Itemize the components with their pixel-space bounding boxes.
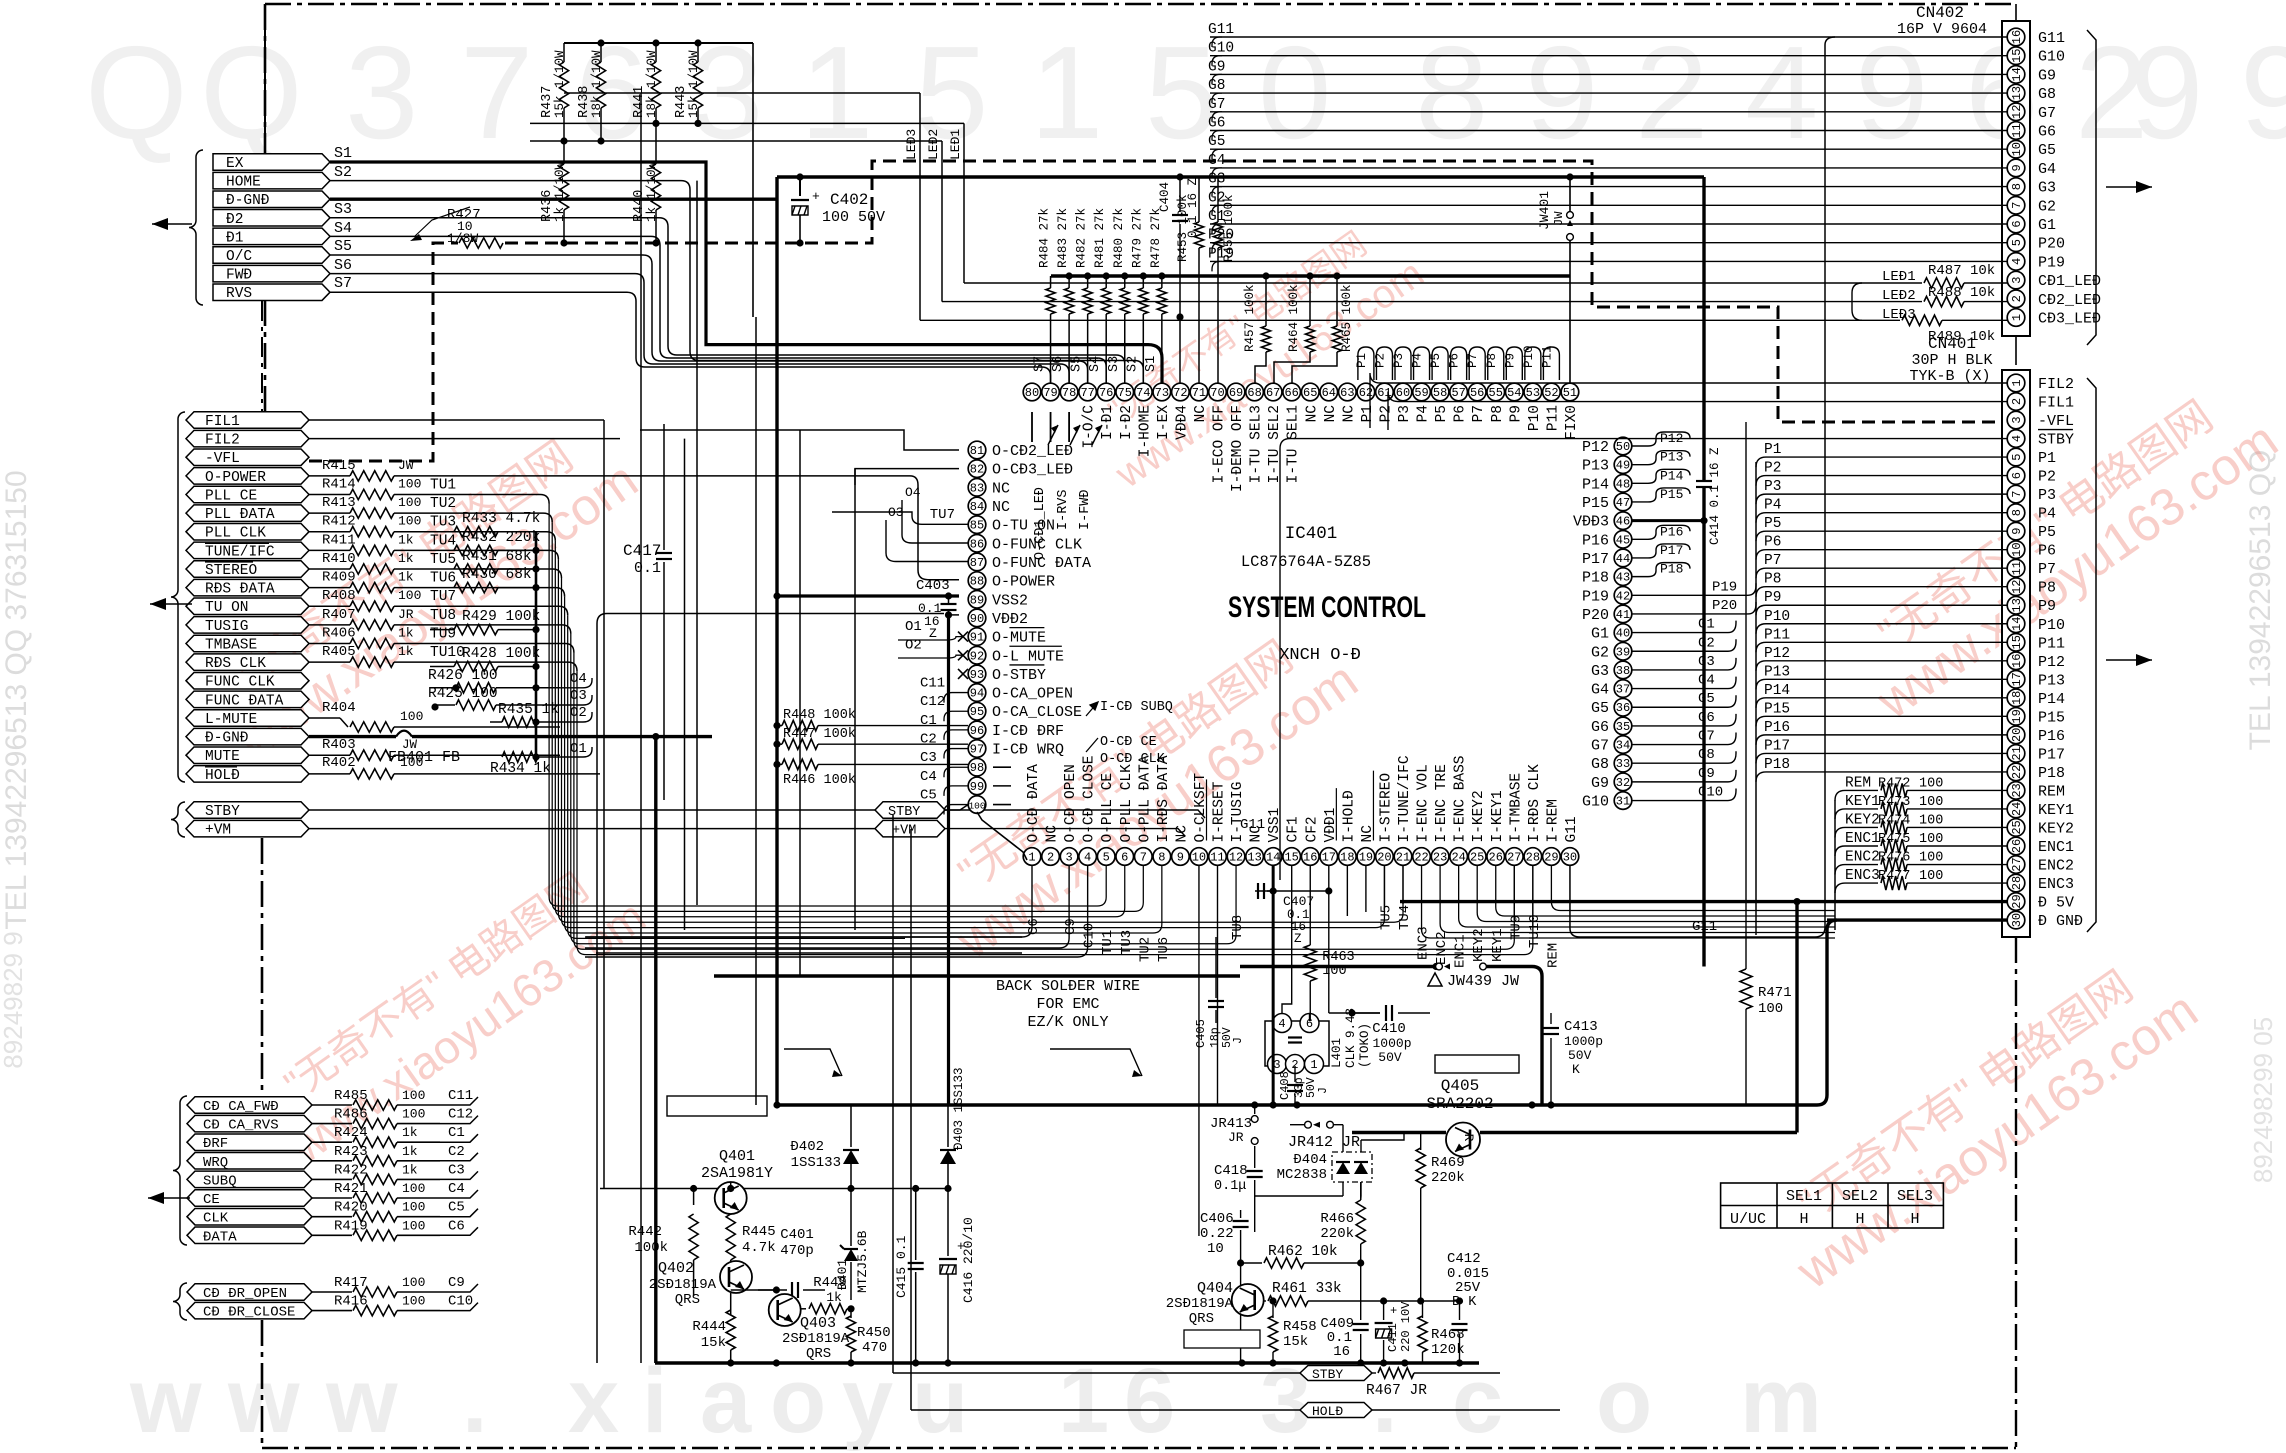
- svg-text:R424: R424: [334, 1125, 368, 1141]
- svg-text:R467 JR: R467 JR: [1366, 1383, 1427, 1399]
- brace CD stack: [173, 1096, 187, 1245]
- pin 74: [1135, 383, 1153, 401]
- svg-text:O2: O2: [570, 705, 587, 721]
- resistor R443 15k 1/10W: [697, 43, 699, 62]
- svg-text:1000p: 1000p: [1372, 1036, 1411, 1051]
- flag FIL1: [186, 412, 309, 429]
- svg-text:18k 1/10W: 18k 1/10W: [590, 50, 604, 118]
- svg-text:TU7: TU7: [930, 507, 955, 523]
- svg-text:VĐĐ3: VĐĐ3: [1573, 514, 1609, 531]
- wire REM label: [1835, 790, 1845, 800]
- svg-text:C416 220/10: C416 220/10: [961, 1217, 976, 1303]
- svg-text:P2: P2: [2038, 469, 2056, 486]
- svg-text:R450: R450: [857, 1325, 891, 1341]
- svg-text:29: 29: [1544, 851, 1558, 865]
- wire IC bottom pins 10,11 verticals: [1198, 866, 1200, 1237]
- svg-text:P2: P2: [1373, 353, 1387, 368]
- svg-text:a: a: [700, 1350, 752, 1452]
- svg-text:24: 24: [1451, 851, 1465, 865]
- svg-text:Z: Z: [929, 626, 937, 641]
- svg-text:+VM: +VM: [205, 823, 231, 839]
- svg-text:R406: R406: [322, 626, 356, 642]
- flag FWĐ: [213, 265, 330, 282]
- svg-text:P10: P10: [1522, 345, 1536, 368]
- svg-text:PLL ĐATA: PLL ĐATA: [205, 507, 275, 523]
- pin 36: [1614, 698, 1632, 716]
- wire CN401 box bottom stub: [2015, 936, 2017, 938]
- svg-text:TU6: TU6: [430, 571, 456, 587]
- svg-text:12: 12: [2010, 105, 2024, 119]
- svg-text:CĐ1_LEĐ: CĐ1_LEĐ: [2038, 273, 2101, 290]
- svg-text:73: 73: [1155, 386, 1169, 400]
- blank rect q404: [1184, 1330, 1260, 1348]
- resistor R483 27k: [1066, 272, 1073, 279]
- resistor R410 1k: [309, 568, 350, 570]
- svg-text:Q401: Q401: [719, 1148, 755, 1165]
- svg-text:P17: P17: [2038, 746, 2065, 763]
- pin 4: [1079, 848, 1097, 866]
- svg-text:16: 16: [1303, 851, 1317, 865]
- resistor R423 1k: [312, 1160, 352, 1162]
- svg-text:G10: G10: [1698, 785, 1723, 801]
- svg-text:30: 30: [2010, 913, 2024, 927]
- svg-text:C411: C411: [1386, 1323, 1400, 1352]
- pin 68: [1246, 383, 1264, 401]
- svg-text:51: 51: [1563, 386, 1577, 400]
- thick rail y=1105: [777, 1103, 1817, 1106]
- svg-text:100: 100: [1919, 813, 1943, 828]
- pin 15 (CN402): [2007, 47, 2025, 65]
- flag FUNC CLK: [186, 672, 309, 689]
- svg-text:C12: C12: [448, 1107, 473, 1123]
- svg-text:P16: P16: [1764, 720, 1790, 736]
- svg-text:HOME: HOME: [226, 175, 261, 191]
- svg-text:G7: G7: [1208, 97, 1225, 113]
- svg-text:O1: O1: [570, 741, 587, 757]
- resistor R445 4.7k: [730, 1214, 732, 1215]
- pin 13 (CN402): [2007, 84, 2025, 102]
- svg-text:CF1: CF1: [1286, 816, 1302, 842]
- svg-text:3: 3: [1260, 1350, 1311, 1452]
- svg-text:220 10V: 220 10V: [1399, 1301, 1413, 1352]
- svg-text:TU8: TU8: [430, 608, 456, 624]
- pin 7 (CN402): [2007, 197, 2025, 215]
- pin 28 (CN401): [2007, 874, 2025, 892]
- pin 88: [968, 572, 986, 590]
- svg-text:FIX0: FIX0: [1564, 405, 1580, 440]
- arrow right: [2106, 186, 2152, 188]
- svg-text:R474: R474: [1878, 813, 1910, 828]
- svg-text:S3: S3: [334, 201, 352, 218]
- svg-text:R412: R412: [322, 514, 356, 530]
- wire FIL1: [1398, 401, 2007, 403]
- svg-text:O-CĐ3_LEĐ: O-CĐ3_LEĐ: [992, 462, 1073, 479]
- wire G3 to CN402: [1210, 186, 2007, 188]
- svg-text:G10: G10: [2038, 49, 2065, 66]
- svg-text:12: 12: [1229, 851, 1243, 865]
- svg-text:I-ĐEMO OFF: I-ĐEMO OFF: [1230, 405, 1246, 492]
- svg-text:I-HOLĐ: I-HOLĐ: [1341, 790, 1357, 842]
- svg-text:59: 59: [1414, 386, 1428, 400]
- svg-text:R433 4.7k: R433 4.7k: [462, 511, 540, 527]
- flag TUNE/IFC: [186, 542, 309, 559]
- pin 63: [1339, 383, 1357, 401]
- svg-text:P5: P5: [1429, 353, 1443, 368]
- svg-text:CĐ CA_FWĐ: CĐ CA_FWĐ: [203, 1099, 279, 1115]
- svg-text:14: 14: [2010, 67, 2024, 81]
- wire P17 to CN401: [1766, 752, 2007, 754]
- svg-text:28: 28: [2010, 876, 2024, 890]
- svg-text:C5: C5: [448, 1200, 465, 1216]
- svg-text:37: 37: [1616, 683, 1630, 697]
- wire ENC3 label: [1835, 883, 1845, 893]
- svg-text:30P H BLK: 30P H BLK: [1911, 352, 1992, 369]
- wire: [440, 1284, 478, 1292]
- svg-text:C408: C408: [1278, 1071, 1292, 1100]
- pin 35: [1614, 717, 1632, 735]
- svg-text:16: 16: [2010, 654, 2024, 668]
- svg-text:SEL3: SEL3: [1897, 1188, 1933, 1205]
- pin 2 (CN402): [2007, 290, 2025, 308]
- svg-text:R405: R405: [322, 644, 356, 660]
- pin 58: [1431, 383, 1449, 401]
- flag RĐS CLK: [186, 654, 309, 671]
- capacitor C415 0.1: [915, 1189, 917, 1261]
- capacitor C404 0.1 16 Z: [1179, 177, 1181, 212]
- svg-text:Q403: Q403: [800, 1315, 836, 1332]
- pin 9 (CN401): [2007, 522, 2025, 540]
- svg-text:R403: R403: [322, 737, 356, 753]
- resistor R403 JW: [309, 754, 350, 756]
- svg-text:TEL 13942296513 QQ 376315150: TEL 13942296513 QQ 376315150: [0, 470, 33, 929]
- svg-text:REM: REM: [2038, 783, 2065, 800]
- svg-text:O4: O4: [905, 485, 921, 500]
- svg-text:87: 87: [970, 556, 984, 570]
- svg-text:+VM: +VM: [892, 824, 916, 839]
- svg-text:15k: 15k: [701, 1335, 726, 1351]
- wire: [440, 1227, 478, 1235]
- ferrite bead FB401 / D-GND thick trace: [309, 735, 396, 738]
- resistor R458 15k: [1272, 1301, 1274, 1318]
- svg-text:18k 1/10W: 18k 1/10W: [645, 50, 659, 118]
- svg-text:81: 81: [970, 444, 984, 458]
- resistor R467 JR: [1372, 1372, 1376, 1374]
- wire: [430, 662, 577, 671]
- svg-text:P13: P13: [1660, 450, 1683, 465]
- svg-text:50: 50: [1616, 440, 1630, 454]
- capacitor C414 0.1 16 Z: [1696, 480, 1712, 482]
- svg-text:100: 100: [402, 1181, 425, 1196]
- resistor R446 100k: [773, 761, 780, 768]
- svg-text:P10: P10: [2038, 617, 2065, 634]
- svg-text:G1: G1: [1208, 209, 1225, 225]
- svg-text:C6: C6: [448, 1218, 465, 1234]
- svg-text:17: 17: [1322, 851, 1336, 865]
- svg-text:44: 44: [1616, 552, 1630, 566]
- svg-text:JW: JW: [402, 738, 418, 752]
- resistor R463 100: [1309, 866, 1311, 946]
- pin 62: [1357, 383, 1375, 401]
- svg-text:R408: R408: [322, 588, 356, 604]
- svg-text:G4: G4: [2038, 161, 2056, 178]
- svg-text:STBY: STBY: [1312, 1367, 1343, 1382]
- svg-text:1: 1: [2010, 314, 2024, 321]
- svg-text:O-CĐ2_LEĐ: O-CĐ2_LEĐ: [992, 443, 1073, 460]
- svg-text:11: 11: [2010, 561, 2024, 575]
- svg-text:PLL CE: PLL CE: [205, 489, 257, 505]
- wire P6 to CN401: [1766, 549, 2007, 551]
- inductor L401 CLK 9.43 (TOKO): [1265, 1021, 1329, 1066]
- thick corner x=777 to 1105: [773, 1101, 780, 1108]
- resistor R442 100k: [693, 1189, 695, 1206]
- svg-text:P12: P12: [1582, 439, 1609, 456]
- resistor R450 470: [847, 1305, 854, 1312]
- pin 99: [968, 777, 986, 795]
- pin 5 (CN402): [2007, 234, 2025, 252]
- pin 34: [1614, 736, 1632, 754]
- svg-text:m: m: [1740, 1350, 1822, 1452]
- wire G10: [1632, 789, 1736, 801]
- pin 3 (CN401): [2007, 411, 2025, 429]
- pin 16: [1301, 848, 1319, 866]
- pin 45: [1614, 531, 1632, 549]
- svg-text:O1: O1: [905, 619, 922, 635]
- svg-text:ĐATA: ĐATA: [203, 1229, 237, 1245]
- wire VDD2 thin from left: [597, 614, 944, 1364]
- svg-text:17: 17: [2010, 672, 2024, 686]
- svg-text:P5: P5: [2038, 524, 2056, 541]
- resistor R486 100: [312, 1123, 352, 1125]
- svg-text:C1: C1: [920, 713, 937, 729]
- svg-text:R476: R476: [1878, 851, 1910, 866]
- svg-text:HOLĐ: HOLĐ: [205, 768, 240, 784]
- svg-text:P18: P18: [2038, 765, 2065, 782]
- svg-text:KEY1: KEY1: [1845, 794, 1880, 810]
- svg-text:G11: G11: [2038, 30, 2065, 47]
- svg-text:CĐ ĐR_CLOSE: CĐ ĐR_CLOSE: [203, 1305, 295, 1321]
- capacitor C407 0.1 16 Z: [1255, 890, 1273, 892]
- wire: [430, 569, 562, 578]
- svg-text:12: 12: [2010, 580, 2024, 594]
- wire: [752, 43, 754, 317]
- svg-text:P3: P3: [2038, 487, 2056, 504]
- svg-text:28: 28: [1526, 851, 1540, 865]
- pin 42: [1614, 586, 1632, 604]
- svg-text:H: H: [1855, 1211, 1864, 1228]
- svg-text:Q402: Q402: [658, 1260, 694, 1277]
- flag FIL2: [186, 430, 309, 447]
- svg-text:w: w: [227, 1350, 300, 1452]
- arrow left (CD stack): [148, 1197, 190, 1199]
- svg-text:23: 23: [2010, 783, 2024, 797]
- svg-text:0.1: 0.1: [634, 560, 661, 577]
- svg-text:R478 27k: R478 27k: [1149, 208, 1163, 268]
- wire FIL1 horizontal: [309, 419, 604, 421]
- svg-text:NC: NC: [992, 499, 1010, 516]
- wire P20 to CN402: [1210, 242, 2007, 244]
- svg-text:FOR EMC: FOR EMC: [1036, 996, 1099, 1013]
- pin 47: [1614, 493, 1632, 511]
- flag CĐ CA_FWĐ: [187, 1097, 312, 1114]
- svg-text:R422: R422: [334, 1162, 368, 1178]
- svg-text:TU4: TU4: [1397, 905, 1413, 930]
- svg-text:43: 43: [1616, 571, 1630, 585]
- pin 27: [1506, 848, 1524, 866]
- svg-text:C9: C9: [448, 1275, 465, 1291]
- pin 1: [1023, 848, 1041, 866]
- svg-text:25: 25: [1470, 851, 1484, 865]
- pin 11 (CN402): [2007, 122, 2025, 140]
- svg-text:63: 63: [1340, 386, 1354, 400]
- pin 17: [1320, 848, 1338, 866]
- svg-text:1: 1: [1310, 1058, 1317, 1072]
- wire pins 27,28 (TU9,TU10) short stubs: [1513, 866, 1515, 921]
- flag -VFL: [186, 449, 309, 466]
- svg-text:15k 1/10W: 15k 1/10W: [687, 50, 701, 118]
- svg-text:P1: P1: [2038, 450, 2056, 467]
- svg-text:O-MUTE: O-MUTE: [992, 630, 1046, 647]
- svg-text:11: 11: [2010, 123, 2024, 137]
- svg-text:93: 93: [970, 668, 984, 682]
- resistor R419 100: [312, 1234, 352, 1236]
- svg-text:P4: P4: [1411, 353, 1425, 368]
- svg-text:2: 2: [2010, 295, 2024, 302]
- capacitor C403 0.1 16 Z: [941, 603, 957, 605]
- resistor R482 27k: [1084, 272, 1091, 279]
- svg-text:R419: R419: [334, 1218, 368, 1234]
- wire TU bundle from left network to IC bottom pins: [549, 504, 1106, 907]
- svg-text:85: 85: [970, 519, 984, 533]
- pin 86: [968, 535, 986, 553]
- svg-text:Q405: Q405: [1441, 1077, 1479, 1095]
- svg-text:R471: R471: [1758, 985, 1792, 1001]
- svg-text:BACK SOLĐER WIRE: BACK SOLĐER WIRE: [996, 978, 1140, 995]
- svg-text:P9: P9: [2038, 598, 2056, 615]
- pin 85: [968, 516, 986, 534]
- wire P9 to CN401: [1766, 604, 2007, 606]
- svg-text:O-CĐ CLK: O-CĐ CLK: [1100, 752, 1166, 767]
- svg-text:Đ-GNĐ: Đ-GNĐ: [205, 731, 249, 747]
- svg-text:R428 100k: R428 100k: [462, 646, 540, 662]
- capacitor C408 33p 50V J: [1294, 1066, 1296, 1082]
- svg-text:C12: C12: [920, 694, 945, 710]
- resistor R416 100: [312, 1310, 352, 1312]
- svg-text:G5: G5: [1208, 134, 1225, 150]
- svg-text:P18: P18: [1582, 570, 1609, 587]
- svg-text:8: 8: [2010, 183, 2024, 190]
- svg-text:SEL2: SEL2: [1842, 1188, 1878, 1205]
- svg-text:100: 100: [402, 1294, 425, 1309]
- wire P19 to CN402: [1210, 260, 2007, 262]
- svg-text:27: 27: [1507, 851, 1521, 865]
- svg-text:P15: P15: [1660, 487, 1683, 502]
- pin 8 (CN402): [2007, 178, 2025, 196]
- flag RĐS ĐATA: [186, 579, 309, 596]
- svg-text:NC: NC: [992, 480, 1010, 497]
- svg-text:O3: O3: [570, 688, 587, 704]
- svg-text:100: 100: [1322, 964, 1346, 979]
- wire LED hooks: [1852, 283, 1862, 320]
- svg-text:R446 100k: R446 100k: [783, 773, 856, 788]
- svg-text:P13: P13: [1582, 458, 1609, 475]
- svg-text:u: u: [912, 1350, 968, 1452]
- flag CE: [187, 1190, 312, 1207]
- svg-text:R457 100k: R457 100k: [1243, 284, 1257, 352]
- svg-text:TU ON: TU ON: [205, 600, 249, 616]
- resistor R469 220k: [1420, 1133, 1422, 1151]
- svg-text:R458: R458: [1283, 1319, 1317, 1335]
- thick line y=1132.5: [1352, 1131, 1446, 1134]
- svg-text:KEY2: KEY2: [1845, 812, 1880, 828]
- flag TMBASE: [186, 635, 309, 652]
- svg-text:P9: P9: [1764, 590, 1781, 606]
- pin 14 (CN402): [2007, 66, 2025, 84]
- svg-text:3: 3: [2010, 276, 2024, 283]
- flag CĐ CA_RVS: [187, 1115, 312, 1132]
- diode D403 1SS133: [947, 1105, 949, 1147]
- svg-text:7: 7: [460, 19, 533, 166]
- svg-text:C418: C418: [1214, 1163, 1248, 1179]
- flag CLK: [187, 1208, 312, 1225]
- arrow left (S stack): [152, 223, 192, 225]
- pin 15: [1283, 848, 1301, 866]
- transistor Q403 2SD1819A QRS: [769, 1294, 801, 1326]
- svg-text:R420: R420: [334, 1200, 368, 1216]
- flag O-POWER: [186, 468, 309, 485]
- pin 8 (CN401): [2007, 504, 2025, 522]
- svg-text:R483 27k: R483 27k: [1056, 208, 1070, 268]
- flag Đ-GNĐ: [213, 191, 330, 208]
- resistor R488 10k: [1862, 301, 1922, 303]
- svg-text:60: 60: [1396, 386, 1410, 400]
- wire LED nets horizontals: [530, 122, 964, 124]
- svg-text:62: 62: [1359, 386, 1373, 400]
- flag CĐ ĐR_CLOSE: [187, 1302, 312, 1319]
- svg-text:R463: R463: [1322, 950, 1354, 965]
- svg-text:P17: P17: [1764, 738, 1790, 754]
- svg-text:KEY1: KEY1: [2038, 802, 2074, 819]
- svg-text:S7: S7: [334, 275, 352, 292]
- resistor R447 100k: [773, 741, 780, 748]
- svg-text:O-CĐ CE: O-CĐ CE: [1100, 735, 1157, 750]
- svg-text:6: 6: [2010, 472, 2024, 479]
- svg-text:15: 15: [2010, 48, 2024, 62]
- wire P10 to CN401: [1766, 623, 2007, 625]
- svg-text:P1: P1: [1355, 353, 1369, 368]
- capacitor C412 0.015 25V B K: [1459, 1301, 1461, 1320]
- svg-text:16: 16: [1333, 1344, 1350, 1360]
- pin 24 (CN401): [2007, 800, 2025, 818]
- svg-text:83: 83: [970, 481, 984, 495]
- resistor R472 100: [1845, 789, 1878, 791]
- resistor R404 100: [309, 717, 340, 719]
- svg-text:21: 21: [2010, 746, 2024, 760]
- svg-text:C3: C3: [448, 1162, 465, 1178]
- wire pins 18,19,21,20 stubs: [1346, 866, 1348, 917]
- svg-text:I-ENC BASS: I-ENC BASS: [1453, 755, 1469, 842]
- svg-text:S2: S2: [1125, 356, 1140, 372]
- svg-text:R425 100: R425 100: [428, 686, 498, 702]
- pin 97: [968, 740, 986, 758]
- wire G8 to CN402: [1210, 92, 2007, 94]
- svg-text:TU7: TU7: [430, 589, 456, 605]
- svg-text:0.22: 0.22: [1200, 1226, 1234, 1242]
- svg-text:P6: P6: [1453, 405, 1469, 422]
- svg-text:7: 7: [2010, 491, 2024, 498]
- pin 21 (CN401): [2007, 745, 2025, 763]
- svg-text:WRQ: WRQ: [203, 1155, 228, 1171]
- svg-text:R464 100k: R464 100k: [1287, 284, 1301, 352]
